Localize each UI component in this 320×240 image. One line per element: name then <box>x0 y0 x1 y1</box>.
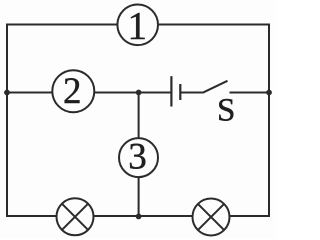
wire bottom side of loop <box>6 215 270 217</box>
meter 2 circle <box>52 70 94 112</box>
junction node right <box>266 90 272 96</box>
lamp L2 cross stroke A <box>198 204 224 230</box>
junction node left <box>4 90 10 96</box>
wire switch contact to right node <box>230 92 270 94</box>
junction node center bottom <box>136 214 142 220</box>
lamp L2 circle <box>193 199 230 236</box>
lamp L1 cross stroke A <box>62 204 88 230</box>
switch S blade (open) <box>203 81 228 93</box>
junction node center top <box>136 90 142 96</box>
wire top side of loop <box>7 24 269 26</box>
lamp L1 cross stroke B <box>62 204 88 230</box>
battery cell long plate (+) <box>170 76 172 106</box>
svg-text:S: S <box>217 93 235 129</box>
lamp L2 cross stroke B <box>198 204 224 230</box>
wire left side of loop <box>6 24 8 218</box>
svg-text:1: 1 <box>128 5 148 48</box>
battery cell short plate (-) <box>179 84 181 100</box>
wire battery to switch hinge <box>181 92 203 94</box>
lamp L1 circle <box>57 198 94 235</box>
wire middle branch left (node to battery) <box>7 92 171 94</box>
svg-text:3: 3 <box>128 137 147 178</box>
wire center vertical branch <box>138 93 140 217</box>
meter 3 circle <box>119 138 158 177</box>
meter 1 circle <box>117 5 158 46</box>
svg-text:2: 2 <box>63 71 82 112</box>
wire right side of loop <box>268 24 270 218</box>
